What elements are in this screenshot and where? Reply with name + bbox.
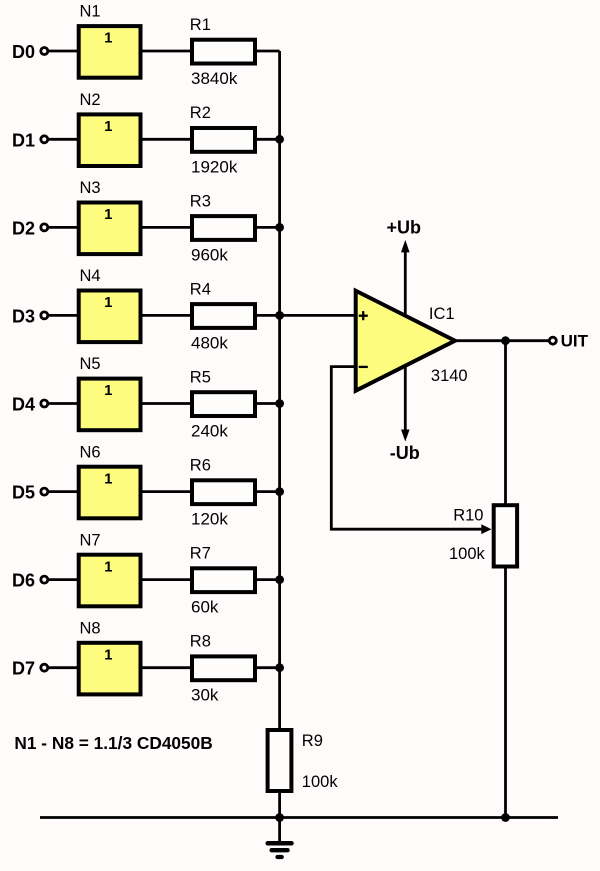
svg-text:1: 1 (104, 30, 112, 47)
wire N3 to R3 (143, 226, 193, 229)
node UIT (549, 332, 588, 351)
wire R5 to bus (257, 402, 280, 405)
wire R9 bottom to rail (278, 791, 281, 818)
wire R3 to bus (257, 226, 280, 229)
svg-text:3140: 3140 (431, 367, 468, 385)
node D2 (12, 218, 48, 238)
resistor R5 240k (190, 368, 255, 440)
svg-text:-Ub: -Ub (390, 443, 420, 463)
svg-text:R10: R10 (453, 507, 483, 525)
svg-text:N4: N4 (80, 267, 101, 285)
wire D2 input to N3 (49, 226, 79, 229)
junction rail/R10 (501, 813, 510, 822)
svg-text:1: 1 (104, 294, 112, 311)
node D4 (12, 395, 48, 415)
buffer N5 (79, 355, 141, 430)
svg-text:3840k: 3840k (191, 69, 238, 88)
svg-text:1920k: 1920k (191, 157, 238, 176)
svg-text:30k: 30k (191, 686, 219, 705)
node D5 (12, 483, 48, 503)
svg-text:1: 1 (104, 646, 112, 663)
wire R8 to bus (257, 666, 280, 669)
wire N1 to R1 (143, 50, 193, 53)
buffer N6 (79, 443, 141, 518)
svg-text:480k: 480k (191, 333, 228, 352)
wire R7 to bus (257, 578, 280, 581)
ground (268, 818, 292, 858)
buffer N4 (79, 267, 141, 342)
buffer N8 (79, 619, 141, 694)
svg-text:120k: 120k (191, 510, 228, 529)
buffer N7 (79, 531, 141, 606)
svg-text:D2: D2 (12, 218, 35, 238)
wire N8 to R8 (143, 666, 193, 669)
junction bus/R4 (275, 311, 284, 320)
svg-text:D0: D0 (12, 42, 35, 62)
svg-text:D6: D6 (12, 571, 35, 591)
svg-text:R4: R4 (190, 280, 211, 298)
node D6 (12, 571, 48, 591)
svg-text:R7: R7 (190, 545, 211, 563)
node D3 (12, 306, 48, 326)
wire R10 bottom to rail (504, 567, 507, 818)
resistor R6 120k (190, 457, 255, 529)
svg-text:100k: 100k (302, 773, 339, 791)
resistor R9 100k (268, 730, 339, 791)
svg-text:UIT: UIT (561, 332, 589, 351)
wire R2 to bus (257, 138, 280, 141)
junction bus/R7 (275, 575, 284, 584)
wire D6 input to N7 (49, 578, 79, 581)
wire R4 to bus (257, 314, 280, 317)
svg-text:1: 1 (104, 558, 112, 575)
buffer N2 (79, 91, 141, 166)
wire D5 input to N6 (49, 490, 79, 493)
svg-text:240k: 240k (191, 422, 228, 441)
wire D3 input to N4 (49, 314, 79, 317)
svg-text:1: 1 (104, 470, 112, 487)
svg-text:D3: D3 (12, 306, 35, 326)
svg-text:R6: R6 (190, 457, 211, 475)
buffer N1 (79, 3, 141, 78)
wire N5 to R5 (143, 402, 193, 405)
junction bus/R8 (275, 663, 284, 672)
svg-text:+Ub: +Ub (387, 218, 422, 238)
svg-text:960k: 960k (191, 245, 228, 264)
resistor R4 480k (190, 280, 255, 352)
wire N7 to R7 (143, 578, 193, 581)
wire op-amp output (456, 339, 550, 342)
power +Ub (387, 218, 422, 315)
svg-text:R8: R8 (190, 633, 211, 651)
svg-text:60k: 60k (191, 598, 219, 617)
wire ground rail (40, 816, 558, 819)
junction output/R10 (501, 336, 510, 345)
wiper arrowhead into R10 (481, 524, 491, 534)
node D1 (12, 130, 48, 150)
svg-text:1: 1 (104, 118, 112, 135)
wire output to R10 top (504, 341, 507, 505)
svg-text:D5: D5 (12, 483, 35, 503)
svg-text:R5: R5 (190, 368, 211, 386)
wire N4 to R4 (143, 314, 193, 317)
resistor R3 960k (190, 192, 255, 264)
wire + input (bus to op-amp) (280, 314, 355, 317)
wire bus vertical (278, 51, 281, 730)
svg-text:N2: N2 (80, 91, 101, 109)
svg-text:N5: N5 (80, 355, 101, 373)
wire N2 to R2 (143, 138, 193, 141)
svg-text:R1: R1 (190, 16, 211, 34)
svg-text:1: 1 (104, 382, 112, 399)
svg-text:N6: N6 (80, 443, 101, 461)
resistor R2 1920k (190, 104, 255, 176)
svg-text:N1: N1 (80, 3, 101, 21)
svg-text:N7: N7 (80, 531, 101, 549)
node D7 (12, 659, 48, 679)
svg-text:N8: N8 (80, 619, 101, 637)
svg-text:N1 - N8 = 1.1/3 CD4050B: N1 - N8 = 1.1/3 CD4050B (14, 733, 212, 753)
junction rail/R9 (275, 813, 284, 822)
svg-text:R3: R3 (190, 192, 211, 210)
svg-text:D4: D4 (12, 395, 35, 415)
potentiometer R10 100k (449, 505, 517, 566)
wire N6 to R6 (143, 490, 193, 493)
junction bus/R3 (275, 223, 284, 232)
node D0 (12, 42, 48, 62)
wire feedback from - input (331, 367, 482, 530)
svg-text:1: 1 (104, 206, 112, 223)
wire R1 to bus (257, 50, 280, 53)
svg-text:D1: D1 (12, 130, 35, 150)
resistor R8 30k (190, 633, 255, 705)
svg-text:R9: R9 (302, 732, 323, 750)
resistor R7 60k (190, 545, 255, 617)
resistor R1 3840k (190, 16, 255, 88)
op-amp IC1 3140 (356, 291, 468, 391)
junction bus/R6 (275, 487, 284, 496)
svg-text:IC1: IC1 (429, 305, 455, 323)
svg-text:100k: 100k (449, 545, 486, 563)
wire D4 input to N5 (49, 402, 79, 405)
buffer N3 (79, 179, 141, 254)
wire D1 input to N2 (49, 138, 79, 141)
wire D0 input to N1 (49, 50, 79, 53)
svg-text:N3: N3 (80, 179, 101, 197)
junction bus/R5 (275, 399, 284, 408)
svg-text:R2: R2 (190, 104, 211, 122)
svg-text:D7: D7 (12, 659, 35, 679)
junction bus/R2 (275, 135, 284, 144)
wire R6 to bus (257, 490, 280, 493)
power -Ub (390, 367, 420, 464)
wire D7 input to N8 (49, 666, 79, 669)
